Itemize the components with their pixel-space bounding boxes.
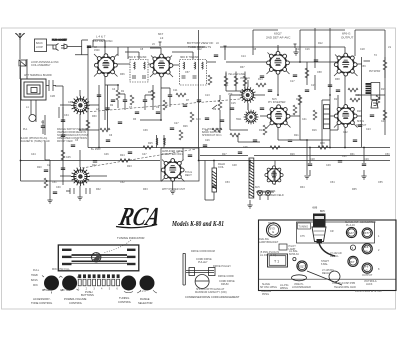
svg-text:R25: R25 (148, 142, 153, 145)
control panel captions (31, 290, 152, 305)
ground top right (293, 48, 298, 55)
wire x205 drop (205, 161, 214, 201)
svg-text:SP OSC WING: SP OSC WING (260, 286, 277, 289)
svg-text:R33: R33 (143, 188, 148, 191)
wire tube4 (330, 28, 345, 147)
svg-text:R12: R12 (318, 42, 323, 45)
chassis small labels (259, 223, 383, 296)
svg-text:C27: C27 (174, 122, 179, 125)
svg-text:R23: R23 (127, 165, 132, 168)
svg-text:6SA7: 6SA7 (347, 231, 354, 235)
mechanical linkage dash line 1 (82, 149, 196, 168)
dial panel box (58, 245, 139, 271)
cluster under tube3 (256, 76, 272, 92)
knob tuning (121, 276, 136, 293)
wire bottom left bus (21, 180, 162, 182)
svg-text:C18: C18 (360, 48, 365, 51)
svg-text:60HZ AC: 60HZ AC (289, 253, 299, 256)
wire switch links (230, 80, 265, 130)
wire left vertical (20, 62, 22, 181)
svg-text:C9: C9 (156, 106, 160, 109)
svg-text:RECT: RECT (185, 174, 192, 177)
power area components (120, 138, 192, 162)
antenna clip (19, 60, 26, 66)
svg-text:6U5: 6U5 (320, 210, 325, 213)
tube 6SA7 1st det-osc (95, 54, 118, 77)
svg-text:2ND IF TRANSF: 2ND IF TRANSF (128, 56, 147, 59)
svg-text:WITH POWER UNIT: WITH POWER UNIT (162, 188, 186, 191)
svg-text:C1B: C1B (50, 95, 55, 98)
wire speaker field (214, 161, 275, 206)
wire mid bus 155 (200, 155, 390, 157)
svg-text:ACCESSORY-: ACCESSORY- (33, 297, 51, 301)
svg-text:C13: C13 (205, 94, 210, 97)
chassis tube 6SQ7 (297, 261, 307, 271)
svg-text:T2: T2 (374, 54, 378, 57)
wire detector cluster (226, 72, 245, 92)
svg-text:C40: C40 (196, 118, 201, 121)
svg-text:REGUL: REGUL (330, 255, 339, 258)
svg-text:POWER-VOLUME: POWER-VOLUME (64, 297, 87, 301)
svg-text:ANT TERMINAL BOARD: ANT TERMINAL BOARD (24, 74, 52, 77)
volume pot mid (205, 95, 257, 142)
svg-text:TO SPEAKER FIELD: TO SPEAKER FIELD (260, 194, 284, 197)
component cluster under tube1 (97, 85, 127, 110)
svg-text:C51: C51 (52, 181, 57, 184)
svg-text:C8: C8 (140, 48, 144, 51)
gang condenser area box (297, 222, 375, 243)
svg-text:R2: R2 (110, 104, 114, 107)
gang capacitor C2 (71, 167, 90, 186)
trimmer cluster right of loop (46, 80, 63, 118)
oval speaker plug (292, 275, 307, 281)
svg-text:R16: R16 (312, 129, 317, 132)
chassis tube 6ST7 (360, 221, 376, 238)
svg-text:C29: C29 (364, 158, 369, 161)
svg-text:WRNG: WRNG (280, 287, 288, 290)
speaker hole (329, 271, 340, 282)
svg-text:SW1: SW1 (236, 118, 242, 121)
svg-text:CONVERTER: CONVERTER (360, 221, 376, 224)
extra tiny value labels (41, 46, 386, 189)
wire dial lamp leads (256, 170, 274, 200)
wire tube2 down (140, 74, 161, 120)
svg-text:LG DRCTION): LG DRCTION) (260, 254, 276, 257)
svg-text:LAMP BRACKET: LAMP BRACKET (259, 241, 279, 244)
tube 6K7 IF (150, 54, 173, 77)
svg-text:JACK: JACK (366, 283, 373, 286)
svg-text:C19: C19 (311, 84, 316, 87)
tube 6F6-G output 2 (334, 105, 357, 128)
tower cable (319, 243, 335, 256)
svg-text:R30: R30 (92, 115, 97, 118)
svg-text:G: G (366, 269, 368, 273)
wire antenna lead (19, 40, 21, 79)
svg-text:TELESCOPE JACK: TELESCOPE JACK (334, 286, 356, 289)
svg-text:R9: R9 (213, 108, 217, 111)
svg-text:C46: C46 (104, 153, 109, 156)
wire top bus (88, 46, 345, 48)
svg-text:R36: R36 (120, 73, 125, 76)
svg-text:C15: C15 (231, 102, 236, 105)
svg-text:C55: C55 (378, 181, 383, 184)
wire tube1 verticals (88, 40, 108, 148)
svg-text:C44: C44 (31, 153, 36, 156)
knob range selector (137, 276, 157, 294)
IF transformer 2 box (130, 60, 148, 83)
svg-text:9: 9 (352, 247, 354, 250)
svg-text:R26: R26 (183, 125, 188, 128)
wire grid caps above tubes (105, 42, 278, 60)
wire top left boxes (47, 40, 89, 55)
grounds (304, 176, 309, 179)
svg-text:2ND DET-AF-AVC: 2ND DET-AF-AVC (266, 36, 291, 40)
svg-text:PULLEY: PULLEY (198, 261, 208, 264)
svg-text:C48: C48 (232, 164, 237, 167)
svg-text:R35: R35 (352, 188, 357, 191)
svg-text:C7: C7 (129, 106, 133, 109)
caps on B+ bus (308, 164, 312, 166)
svg-text:R18: R18 (357, 110, 362, 113)
knob power-volume (61, 276, 80, 292)
plug and socket symbols (52, 40, 68, 51)
svg-text:OUTPUT: OUTPUT (356, 124, 367, 127)
svg-text:C50: C50 (385, 153, 390, 156)
svg-text:6 BAL: 6 BAL (321, 263, 328, 266)
wire osc section (60, 90, 107, 197)
speaker (371, 101, 378, 109)
svg-text:C43: C43 (381, 120, 386, 123)
dotted leader to eye (103, 240, 131, 253)
svg-text:L1: L1 (26, 106, 29, 109)
wire if boxes tops (125, 52, 193, 59)
wire right verticals cluster (315, 28, 338, 148)
6U5 tuning eye schematic (265, 166, 283, 184)
svg-text:C75: C75 (300, 235, 305, 238)
svg-text:R34: R34 (300, 186, 305, 189)
svg-text:OUTPUT: OUTPUT (341, 36, 354, 40)
svg-text:R38: R38 (335, 78, 340, 81)
wire output right (300, 55, 370, 140)
knob accessory-tone (42, 276, 61, 294)
svg-text:VIO-BLK: VIO-BLK (240, 77, 250, 80)
svg-text:R17: R17 (334, 98, 339, 101)
svg-text:LOOP: LOOP (36, 46, 43, 49)
dial lamp 2 (265, 190, 270, 195)
dial lamp 1 (257, 190, 262, 195)
extra labels mid (202, 48, 301, 137)
wire rect box feeds (157, 135, 183, 190)
drive pulley left (189, 268, 195, 276)
svg-text:USE RCA FISH PPR: USE RCA FISH PPR (332, 282, 355, 285)
mechanical linkage dash line 2 (86, 99, 240, 112)
gang capacitor C1 (71, 96, 90, 115)
svg-text:REGUL: REGUL (322, 272, 331, 275)
chassis tube 5Y3G (267, 222, 281, 237)
wire tube6 (260, 116, 307, 175)
svg-text:C52: C52 (120, 181, 125, 184)
svg-text:FRONT VIEW: FRONT VIEW (57, 140, 73, 143)
phono jack box (35, 39, 47, 52)
component cluster under tube2 (143, 88, 172, 110)
svg-text:6K7: 6K7 (350, 260, 355, 264)
osc trimmers under C2 (66, 188, 90, 194)
svg-text:C16: C16 (305, 48, 310, 51)
svg-text:R37: R37 (240, 66, 245, 69)
svg-text:R8: R8 (253, 48, 257, 51)
svg-text:C54: C54 (330, 181, 335, 184)
svg-text:MAXIMUM CAPACITY (CW): MAXIMUM CAPACITY (CW) (195, 291, 227, 294)
svg-text:1 2 3: 1 2 3 (140, 290, 146, 293)
wire mid vertical bus (198, 30, 200, 161)
wire tube1-tube2 link (113, 64, 179, 65)
svg-text:3RD IF TRANSF: 3RD IF TRANSF (180, 56, 199, 59)
svg-text:R19: R19 (381, 88, 386, 91)
svg-text:C12: C12 (197, 48, 202, 51)
svg-text:R3: R3 (133, 118, 137, 121)
svg-text:BASS: BASS (31, 279, 38, 282)
svg-text:DRIVE PULLEY: DRIVE PULLEY (213, 265, 231, 268)
small terminal marks (159, 42, 297, 50)
svg-text:PL A-16: PL A-16 (346, 224, 355, 227)
wire B+ bus (88, 147, 390, 149)
choke coil hatched (249, 158, 254, 198)
svg-text:C58: C58 (317, 71, 322, 74)
svg-text:8: 8 (378, 268, 380, 271)
chassis apron line (259, 278, 397, 280)
tube 6F6-G output 1 (334, 53, 357, 76)
cord drive drum (195, 275, 209, 289)
svg-text:R14: R14 (259, 129, 264, 132)
svg-text:CR: CR (330, 230, 334, 233)
svg-text:TOGETHER ONLY: TOGETHER ONLY (162, 153, 183, 156)
svg-text:COIL ASSEMBLY: COIL ASSEMBLY (31, 64, 51, 67)
range switch wafer 1 (239, 87, 256, 104)
svg-text:R20: R20 (37, 166, 42, 169)
svg-text:6SQ7: 6SQ7 (298, 265, 306, 269)
svg-text:OUTPUT: OUTPUT (362, 274, 373, 277)
svg-text:6U5: 6U5 (313, 207, 318, 210)
svg-text:TUNING: TUNING (119, 296, 129, 300)
knob tick labels (31, 268, 146, 293)
svg-text:C23: C23 (366, 128, 371, 131)
svg-text:C4: C4 (112, 88, 116, 91)
svg-text:C11: C11 (173, 89, 178, 92)
svg-text:PLUG SOCKET: PLUG SOCKET (52, 40, 68, 42)
svg-text:COIL: COIL (218, 166, 224, 169)
svg-text:LS: LS (388, 46, 391, 49)
candohm resistor right (324, 105, 330, 129)
wire loop leads (27, 59, 36, 122)
drive shaft (186, 271, 214, 273)
svg-text:C41: C41 (302, 118, 307, 121)
svg-text:RANGE: RANGE (140, 297, 150, 301)
wire right bus (355, 30, 385, 147)
svg-text:TONE CONTROL: TONE CONTROL (31, 301, 53, 305)
svg-text:L 4 & 7: L 4 & 7 (96, 35, 106, 39)
svg-text:C39: C39 (143, 129, 148, 132)
svg-text:R32: R32 (96, 188, 101, 191)
svg-text:TUNING: TUNING (299, 226, 309, 229)
svg-text:C57: C57 (185, 71, 190, 74)
svg-text:C6: C6 (109, 134, 113, 137)
rectifier box (161, 148, 199, 181)
svg-text:C30: C30 (56, 186, 61, 189)
loop plug (29, 115, 36, 122)
svg-text:SHOWN AT NO.1: SHOWN AT NO.1 (202, 134, 222, 137)
chassis outline (259, 220, 397, 291)
svg-text:MIN: MIN (33, 284, 38, 287)
svg-text:T 1: T 1 (274, 260, 279, 264)
svg-text:TREB: TREB (31, 274, 38, 277)
svg-text:6F6-G: 6F6-G (357, 120, 364, 123)
svg-text:YELLOW-LINE: YELLOW-LINE (228, 73, 245, 76)
svg-text:PL DIAL LAMPS: PL DIAL LAMPS (257, 190, 276, 193)
wire left column (50, 95, 63, 200)
wire switch area (220, 104, 260, 142)
svg-text:R27: R27 (222, 153, 227, 156)
svg-text:R21: R21 (294, 134, 299, 137)
svg-text:L5: L5 (152, 43, 155, 46)
wire output transformer leads (354, 64, 385, 116)
svg-text:OFF ON: OFF ON (60, 289, 70, 292)
svg-text:C25: C25 (243, 146, 248, 149)
svg-text:1500: 1500 (94, 49, 100, 52)
dial scale lines (72, 255, 128, 264)
detector load resistors (224, 73, 247, 87)
svg-text:L6: L6 (216, 42, 219, 45)
svg-text:Models K-80 and K-81: Models K-80 and K-81 (171, 220, 224, 228)
speaker field coil (212, 168, 217, 192)
svg-text:C1: C1 (41, 121, 45, 124)
svg-text:6U5: 6U5 (255, 186, 260, 189)
svg-text:G: G (272, 230, 275, 234)
IF transformer 3 box (180, 60, 207, 86)
dial scale bars left (62, 249, 136, 266)
trimmer circle (350, 245, 355, 250)
6U5 shield tower dark (312, 207, 326, 244)
wire left mid (45, 86, 63, 160)
svg-text:R13: R13 (258, 78, 263, 81)
wire tube5 (330, 116, 345, 147)
svg-text:C28: C28 (310, 158, 315, 161)
chassis diagonal lead (307, 271, 342, 285)
extra clutter caps and resistors (44, 46, 387, 194)
drive pulley right (209, 268, 216, 276)
svg-text:PRINT/PLUG 11 SH 967: PRINT/PLUG 11 SH 967 (355, 290, 383, 293)
svg-text:PRSG: PRSG (262, 293, 269, 296)
svg-text:L3: L3 (160, 36, 164, 40)
svg-text:C17: C17 (290, 80, 295, 83)
svg-text:C42: C42 (343, 131, 348, 134)
tube pin stubs (94, 53, 358, 182)
svg-text:C26: C26 (205, 139, 210, 142)
dial scale bars right (127, 249, 136, 251)
svg-text:1: 1 (378, 235, 380, 238)
svg-text:CONDENSER DRIVE CORD ARRANGEME: CONDENSER DRIVE CORD ARRANGEMENT (185, 295, 240, 299)
svg-text:R29: R29 (290, 153, 295, 156)
output transformer T2 (366, 83, 380, 100)
svg-text:6ST7: 6ST7 (363, 231, 370, 235)
RCA script logo (116, 201, 164, 231)
svg-text:FULL: FULL (33, 269, 40, 272)
scattered value labels (23, 42, 391, 191)
svg-text:C21: C21 (356, 94, 361, 97)
svg-text:POWER: POWER (42, 289, 52, 292)
svg-text:B+ 250V: B+ 250V (91, 148, 101, 151)
wire lower bus (21, 160, 391, 162)
svg-text:C53: C53 (225, 181, 230, 184)
svg-text:SELECTOR: SELECTOR (138, 301, 152, 305)
svg-text:VOL: VOL (228, 93, 234, 96)
tube 6C5 phase inverter (267, 105, 290, 128)
svg-text:CONTROL: CONTROL (118, 300, 132, 304)
tube 6SQ7 2nd det (267, 51, 290, 74)
tuning eye circle (92, 253, 101, 262)
svg-text:R1: R1 (121, 90, 125, 93)
svg-text:DRIVE CORD: DRIVE CORD (218, 275, 234, 278)
wire if3 to tube3 (207, 61, 269, 63)
wire tube3 verticals (253, 30, 278, 95)
antenna (15, 33, 24, 40)
svg-text:R7: R7 (186, 99, 190, 102)
svg-text:R5: R5 (148, 91, 152, 94)
tube 5Y3-G rectifier (161, 159, 184, 182)
push buttons row (78, 274, 136, 290)
RCA logo underline swash (116, 225, 157, 228)
wire top tube1 feed (93, 40, 128, 59)
svg-text:DRIVE CORD DRUM: DRIVE CORD DRUM (191, 250, 215, 253)
svg-text:R4: R4 (163, 138, 167, 141)
svg-text:RCA: RCA (116, 201, 164, 231)
svg-text:R31: R31 (350, 153, 355, 156)
svg-text:C47: C47 (142, 153, 147, 156)
svg-text:R11: R11 (224, 84, 229, 87)
svg-text:TUNING INDICATOR: TUNING INDICATOR (117, 236, 145, 240)
loop antenna (21, 79, 46, 100)
svg-text:C49: C49 (326, 164, 331, 167)
cluster tube4 area (298, 57, 387, 127)
svg-text:C45: C45 (66, 156, 71, 159)
svg-text:MAGNETIC (TAPE) HEAD: MAGNETIC (TAPE) HEAD (20, 140, 50, 143)
svg-text:C59: C59 (361, 65, 366, 68)
svg-text:R28: R28 (320, 142, 325, 145)
grommet (293, 258, 296, 261)
chassis tube 6SA7 (345, 221, 359, 238)
svg-text:PM SPKR: PM SPKR (369, 70, 380, 73)
svg-text:C34: C34 (64, 114, 69, 117)
wire tube3-tube4 (287, 30, 345, 62)
svg-text:DRUM: DRUM (221, 283, 229, 286)
svg-text:2: 2 (378, 249, 380, 252)
chassis tube 6F6 lower (362, 263, 373, 277)
svg-text:G: G (366, 249, 368, 253)
chassis tube 6F6 upper (362, 244, 372, 254)
svg-text:HEAT: HEAT (268, 222, 275, 225)
svg-text:MIN LOW FULL: MIN LOW FULL (52, 268, 70, 271)
svg-text:BUTTONS: BUTTONS (81, 293, 94, 297)
drive cord labels (185, 250, 240, 299)
chassis tube 6K7 (348, 256, 358, 266)
range switch wafer 2 (244, 110, 259, 125)
svg-text:PH. INVERTER: PH. INVERTER (268, 101, 286, 104)
svg-text:C31: C31 (342, 155, 347, 158)
drive cord mounting bar (183, 253, 185, 285)
svg-text:R24: R24 (120, 154, 125, 157)
svg-text:C18: C18 (296, 48, 301, 51)
svg-text:C36: C36 (68, 101, 73, 104)
svg-text:R22: R22 (92, 164, 97, 167)
